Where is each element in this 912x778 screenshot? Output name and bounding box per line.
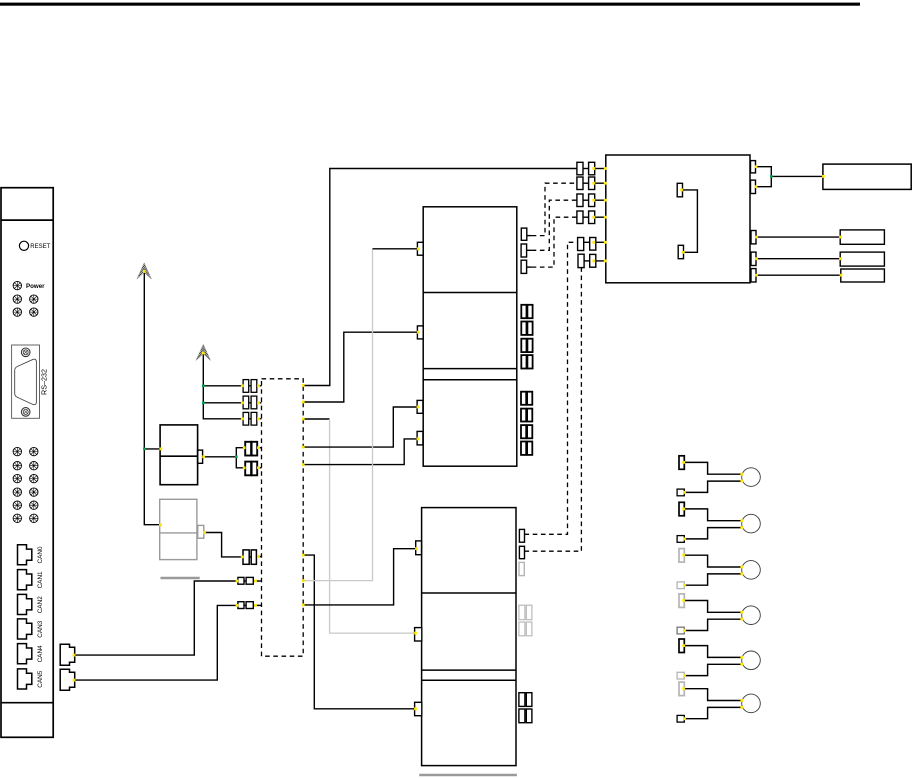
probe S5 (round connector) xyxy=(742,651,761,670)
pin M1 left xyxy=(417,242,423,255)
dashed wire M1 p2 to IF row3 xyxy=(532,200,577,250)
antenna arrow A2 xyxy=(196,344,211,360)
connector CAN2 xyxy=(18,594,32,614)
wire net7: harness to upper box1 (grey run) xyxy=(303,249,372,581)
probe S2 (round connector) xyxy=(742,514,761,533)
wire S5 pin to probe xyxy=(684,646,742,658)
antenna unit R1 xyxy=(823,164,911,189)
dashed wire M4 p1 to IF row5 xyxy=(525,242,578,534)
pin M1 right J (to dashed bus) xyxy=(521,228,532,273)
harness bundle (dashed box) W1 xyxy=(262,379,304,656)
probe S1 (round connector) xyxy=(742,468,761,487)
inline connector pair X8 xyxy=(238,602,262,609)
dashed wire M4 p2 to IF row6 xyxy=(525,268,582,552)
svg-text:RS–232: RS–232 xyxy=(40,369,49,395)
screw hole bottom xyxy=(21,408,30,417)
inline connector pair X7 xyxy=(238,577,262,584)
probe S6 (round connector) xyxy=(742,694,761,713)
wire CAN5 bus: P5 to harness block xyxy=(75,605,238,680)
sensor stack lower (boxes M4-M6) xyxy=(422,508,516,766)
sensor unit S4 terminal xyxy=(677,627,684,634)
inline connector pair X3 xyxy=(243,412,261,425)
U2 left pin pair row1 xyxy=(577,162,606,175)
module B2 (grey terminator box) xyxy=(160,499,204,559)
wire A2 tap 1 xyxy=(203,385,243,387)
U2 left pin pair row3 xyxy=(577,194,606,207)
U2 left pin pair row5 xyxy=(578,238,606,251)
pin group M5 right (2 pairs grey) xyxy=(519,605,532,636)
wire S4 terminal to probe xyxy=(684,619,742,630)
wire A1 tap to box B1 xyxy=(144,448,160,450)
lower stack shadow xyxy=(419,774,517,776)
svg-text:CAN5: CAN5 xyxy=(37,670,44,687)
dashed wire M1 p3 to IF row4 xyxy=(532,217,577,267)
wire A2 tap 2 xyxy=(203,402,243,404)
page top rule xyxy=(0,3,860,6)
LED D4 xyxy=(13,308,21,316)
inline connector pair X1 xyxy=(243,380,261,393)
svg-text:CAN2: CAN2 xyxy=(37,596,44,613)
sensor unit S6 pin xyxy=(679,682,684,696)
wire B1 tab to bold pin pairs xyxy=(203,456,237,458)
B2 shadow line xyxy=(161,577,200,579)
antenna arrow A1 xyxy=(137,263,152,279)
wire net2: harness to sensor box2 xyxy=(303,332,417,402)
U2 left pin pair row2 xyxy=(577,177,606,190)
wire net5: harness to sensor box3 pin2 xyxy=(303,439,417,465)
sensor unit S4 pin xyxy=(679,594,684,608)
wire S3 terminal to probe xyxy=(684,574,742,585)
sensor stack upper (boxes M1-M3) xyxy=(423,207,517,466)
U2 right pin D xyxy=(751,252,756,265)
connector CAN3 xyxy=(18,619,32,639)
pin group M6 right (2 pairs) xyxy=(519,693,532,723)
wire antenna feed xyxy=(771,175,823,177)
connector CAN1 xyxy=(18,570,32,590)
sensor unit S3 terminal xyxy=(677,582,684,589)
wire net3: harness to lower box2 (grey run) xyxy=(303,418,329,420)
U2 right pin B xyxy=(751,180,756,193)
module bottom divider xyxy=(1,702,53,704)
sensor unit S5 terminal xyxy=(677,672,684,679)
pin M5 left xyxy=(415,628,422,641)
svg-text:CAN1: CAN1 xyxy=(37,571,44,588)
solder dots (yellow connection points) xyxy=(73,165,843,720)
sensor unit S2 pin xyxy=(679,502,684,516)
wire S6 pin to probe xyxy=(684,689,742,701)
U2 internal jumper wire xyxy=(683,190,698,252)
wire S6 terminal to probe xyxy=(684,707,742,718)
wire pin C to R2 xyxy=(756,236,840,238)
U2 right pin C xyxy=(751,231,756,244)
pin M4 right p3 (grey) xyxy=(519,562,524,575)
wire S2 pin to probe xyxy=(684,509,742,521)
wire S1 pin to probe xyxy=(684,462,742,474)
wire pin E to R4 xyxy=(756,274,841,276)
LED D2 xyxy=(13,295,21,303)
pushbutton RESET xyxy=(19,241,28,250)
junction dots (green) xyxy=(143,175,773,458)
inline connector pair X2 xyxy=(243,396,261,409)
U2 right pin A xyxy=(751,161,756,173)
D-sub shell xyxy=(15,359,37,405)
connector CAN5 xyxy=(18,669,32,689)
connector CAN0 xyxy=(18,545,32,565)
LED D5 xyxy=(30,308,38,316)
pin group M2 right (4 pairs) xyxy=(521,305,532,369)
LED grid rows 1-6 xyxy=(13,447,38,522)
svg-text:CAN3: CAN3 xyxy=(37,620,44,637)
pin M4 left xyxy=(416,541,422,555)
LED D3 xyxy=(30,295,38,303)
wire from antenna A2 down xyxy=(203,353,243,418)
pin M3 left a xyxy=(417,400,423,413)
pin group M3 right (4 pairs) xyxy=(521,392,532,455)
inline connector pair X6 xyxy=(243,550,262,564)
U2 internal jumper pin b xyxy=(678,245,683,258)
connector CAN4 xyxy=(18,644,32,664)
wire S2 terminal to probe xyxy=(684,528,742,539)
wire S5 terminal to probe xyxy=(684,664,742,675)
sensor unit S3 pin xyxy=(679,549,684,563)
wire S3 pin to probe xyxy=(684,555,742,567)
wire from antenna A1 down xyxy=(144,272,159,525)
svg-text:CAN0: CAN0 xyxy=(37,546,44,563)
module R2 xyxy=(840,230,884,244)
mating plug P4 on CAN4 xyxy=(60,644,74,665)
module R4 xyxy=(841,269,885,282)
probe S3 (round connector) xyxy=(742,561,761,580)
dashed wire M1 p1 to IF row2 xyxy=(532,183,577,235)
wire S4 pin to probe xyxy=(684,601,742,613)
wire CAN4 bus: P4 to harness block xyxy=(75,581,238,655)
screw hole top xyxy=(21,348,30,357)
sensor unit S1 pin xyxy=(679,456,684,470)
inline connector pair X4 (bold) xyxy=(245,442,261,456)
probe S4 (round connector) xyxy=(742,606,761,625)
CAN interface module U1 (front panel) xyxy=(1,188,53,738)
pin M2 left xyxy=(417,326,423,339)
wire net4: harness to sensor box3 pin1 xyxy=(303,407,417,447)
module outline xyxy=(1,188,53,738)
pin M6 left xyxy=(415,702,422,715)
sensor unit S2 terminal xyxy=(677,536,684,543)
wire B2 tab to tall pin pair xyxy=(204,533,243,557)
sensor unit S6 terminal xyxy=(677,715,684,722)
mating plug P5 on CAN5 xyxy=(60,669,74,690)
wire S1 terminal to probe xyxy=(684,481,742,492)
svg-text:RESET: RESET xyxy=(30,244,50,250)
U2 left pin pair row6 xyxy=(578,254,606,267)
wire net8: harness to lower box1 xyxy=(303,549,415,605)
U2 internal jumper pin a xyxy=(677,183,682,197)
U2 right pin E xyxy=(751,269,756,282)
wire pins A+B join to antenna feed xyxy=(756,167,772,187)
inline connector pair X5 (bold) xyxy=(245,462,261,476)
module top divider xyxy=(1,219,53,221)
svg-text:Power: Power xyxy=(26,283,45,290)
module B1 (terminator box) xyxy=(160,425,203,485)
LED power xyxy=(13,281,21,289)
wire pin D to R3 xyxy=(756,258,840,260)
module R3 xyxy=(840,252,884,266)
U2 left pin pair row4 xyxy=(577,211,606,224)
sensor unit S1 terminal xyxy=(677,489,684,496)
interface box U2 (top right) xyxy=(606,155,750,283)
wire junction split to pair rows xyxy=(236,448,245,468)
pin M4 right p2 xyxy=(519,546,524,558)
sensor unit S5 pin xyxy=(679,639,684,653)
pin M4 right p1 xyxy=(519,529,524,542)
wire net6: harness to lower box3 xyxy=(303,555,414,709)
wire net1: harness to IF-box pin row1 xyxy=(303,169,577,386)
pin M3 left b xyxy=(417,431,423,445)
DB9 connector J1 (RS-232) xyxy=(12,345,40,418)
svg-text:CAN4: CAN4 xyxy=(37,645,44,662)
